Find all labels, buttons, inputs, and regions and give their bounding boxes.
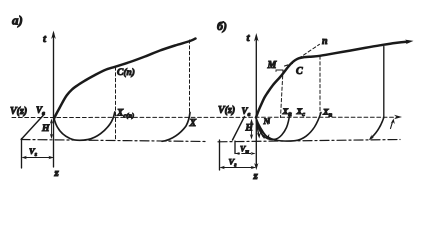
z axis arrowhead (b) <box>254 163 258 170</box>
svg-text:б): б) <box>217 19 227 33</box>
inner profile vertical (b) <box>234 141 236 154</box>
t axis arrowhead (b) <box>254 33 259 42</box>
solid vertical at right (b) <box>383 47 385 118</box>
svg-text:X: X <box>189 118 197 129</box>
waveguide parabola 2 (b) <box>256 113 321 142</box>
Vи dashed dimension line <box>236 153 254 155</box>
waveguide ray fan stroke 2 <box>256 118 263 137</box>
svg-text:z: z <box>253 170 259 182</box>
descending ray at right (b) <box>371 118 384 139</box>
travel-time curve (b) <box>256 42 408 118</box>
left bracket vertical (a) <box>21 139 23 169</box>
svg-text:n: n <box>322 36 328 47</box>
svg-text:H: H <box>245 124 254 134</box>
N tick arrow <box>269 119 271 124</box>
svg-text:C: C <box>296 66 303 77</box>
dashed vertical at Xи <box>281 70 284 118</box>
H dimension arrow (a) <box>51 121 53 137</box>
t axis arrowhead (a) <box>51 31 56 40</box>
dashed vertical at X (a) <box>189 40 191 117</box>
svg-text:V(z): V(z) <box>218 105 235 116</box>
dashed vertical at Xп <box>319 56 321 117</box>
velocity slant line (b) <box>233 117 245 141</box>
svg-text:H: H <box>41 124 50 134</box>
boundary dash-dot line (a) <box>21 140 207 142</box>
t-z axis (b) <box>255 36 257 165</box>
small up arrow below axis (b) <box>391 121 393 129</box>
svg-text:C(n): C(n) <box>117 67 135 78</box>
waveguide ray fan stroke 3 <box>256 118 267 138</box>
svg-text:M: M <box>267 60 278 71</box>
diving ray parabola (a) <box>54 112 115 140</box>
H dimension arrow (b) <box>251 121 253 138</box>
x axis right arrowhead (b) <box>394 115 402 119</box>
curve end arrowhead (b) <box>405 40 414 45</box>
Vг dimension arrow (b) <box>221 167 255 169</box>
left bracket vertical (b) <box>219 140 221 170</box>
M level tick <box>276 70 283 72</box>
boundary dash-dot line (b) <box>218 140 400 142</box>
waveguide parabola 1 (b) <box>256 113 290 140</box>
svg-text:a): a) <box>12 13 23 28</box>
svg-text:z: z <box>54 167 60 179</box>
velocity slant line (a) <box>22 114 45 139</box>
right ray curve (a) <box>162 113 190 142</box>
short dashed segment M to C <box>285 64 293 67</box>
dashed tangent line to n <box>294 44 320 61</box>
dashed vertical at Xc(n) (a) <box>115 67 117 140</box>
x axis dashed (shared) <box>12 116 396 118</box>
t-z axis (a) <box>53 33 55 167</box>
Vг dimension arrow (a) <box>23 157 53 159</box>
waveguide ray fan stroke 1 <box>256 118 259 136</box>
svg-text:V(z): V(z) <box>10 106 27 117</box>
travel-time curve (a) <box>54 39 195 119</box>
